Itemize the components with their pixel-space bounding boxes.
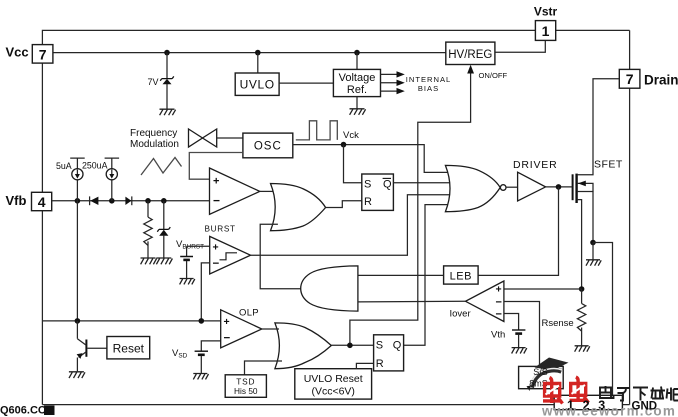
- svg-text:7: 7: [626, 71, 634, 87]
- node latch2 S junction: [347, 343, 353, 349]
- pin box Vcc 7: [32, 45, 53, 64]
- watermark graduation cap: [527, 358, 569, 392]
- svg-text:Q: Q: [393, 340, 402, 352]
- node Vfb-zener junction: [161, 198, 167, 204]
- ground below SFET source: [586, 260, 601, 266]
- node Vfb-resistor junction: [145, 198, 151, 204]
- wire burst minus input: [201, 263, 209, 321]
- svg-text:7V: 7V: [147, 77, 158, 87]
- wire OLP out to OR2: [262, 328, 279, 330]
- svg-text:Vstr: Vstr: [534, 5, 558, 19]
- svg-text:Vth: Vth: [491, 330, 505, 341]
- clock waveform Vck: [296, 121, 338, 140]
- node Vfb-5uA junction: [75, 198, 81, 204]
- svg-text:1: 1: [542, 23, 550, 39]
- zener diode 7V: [160, 76, 174, 84]
- node Vcc-UVLO junction: [255, 50, 261, 56]
- wire OLP minus input: [201, 341, 220, 351]
- wire zener branch: [166, 53, 168, 109]
- wire OR1 out to latch1 R: [326, 201, 362, 208]
- wire latch1 Qbar to NOR in2: [393, 182, 455, 184]
- zener diode on Vfb: [157, 201, 170, 258]
- svg-text:Vcc: Vcc: [6, 44, 29, 59]
- wire OLP plus rail: [42, 320, 220, 322]
- wire NOR to DRIVER: [506, 186, 518, 188]
- wire OSC output to Vck node: [293, 145, 452, 173]
- block S/S 8mS: [519, 366, 564, 388]
- or-gate OR2: [275, 323, 331, 369]
- svg-text:Vck: Vck: [343, 130, 359, 141]
- wire UVLO Reset to latch2 R: [356, 363, 373, 368]
- wire OR2 out to latch2 S: [331, 344, 373, 346]
- wire Iover plus input: [504, 288, 582, 290]
- internal bias arrow 3: [381, 90, 398, 92]
- svg-text:VBURST: VBURST: [176, 239, 204, 251]
- svg-text:+: +: [213, 176, 219, 188]
- wire base to Reset: [88, 347, 107, 349]
- wire VRef to ground: [356, 97, 358, 109]
- wire VBURST to burst +: [187, 246, 210, 256]
- or-gate OR1: [271, 184, 326, 231]
- IC bottom border wire: [42, 404, 629, 406]
- transistor SFET gate bar: [572, 174, 574, 200]
- svg-text:His 50: His 50: [234, 386, 258, 396]
- block Voltage Ref: [333, 69, 380, 96]
- svg-text:DRIVER: DRIVER: [513, 159, 557, 171]
- buffer DRIVER: [518, 172, 546, 201]
- comparator Iover (mirrored): [466, 281, 504, 322]
- pin box GND 123: [554, 395, 622, 409]
- svg-text:BURST: BURST: [205, 225, 236, 234]
- block HV/REG: [446, 42, 495, 64]
- wire source to GND pin: [593, 243, 613, 396]
- svg-text:4: 4: [38, 194, 46, 210]
- latch U2 SR: [374, 335, 404, 371]
- svg-text:Ref.: Ref.: [347, 84, 367, 96]
- pin box Vfb 4: [32, 192, 52, 210]
- svg-text:OLP: OLP: [239, 308, 259, 319]
- op-amp PWM comparator: [210, 168, 260, 214]
- wire Iover low-minus to Vth: [504, 314, 519, 330]
- wire UVLO to rail: [257, 53, 259, 73]
- NOR output bubble: [500, 185, 506, 191]
- svg-text:Voltage: Voltage: [339, 72, 376, 84]
- svg-text:S/S: S/S: [533, 367, 548, 377]
- node Vcc-VRef junction: [354, 50, 360, 56]
- svg-text:Modulation: Modulation: [130, 139, 179, 150]
- SFET body stub with arrow: [578, 183, 593, 191]
- IC left border wire: [41, 63, 43, 405]
- ground below zener: [156, 258, 172, 264]
- svg-text:Reset: Reset: [113, 341, 145, 355]
- svg-text:Vfb: Vfb: [6, 193, 27, 208]
- svg-text:−: −: [224, 333, 231, 345]
- ground below zener 7V: [160, 109, 176, 115]
- wire Iover out to AND: [358, 300, 466, 303]
- transistor Q1: [77, 321, 87, 371]
- resistor Rsense: [577, 289, 585, 346]
- wire VRef to rail: [356, 53, 358, 70]
- ground below Vth: [512, 348, 527, 354]
- SFET sense tap wire: [578, 200, 582, 289]
- svg-text:−: −: [496, 308, 502, 320]
- block Reset: [107, 337, 150, 359]
- svg-text:UVLO: UVLO: [240, 78, 275, 92]
- wire source to ground: [592, 243, 594, 260]
- internal bias arrow 1: [381, 73, 398, 75]
- wire burst output to NOR in3: [251, 195, 456, 255]
- svg-text:R: R: [364, 196, 372, 208]
- frequency modulation bowtie symbol: [189, 129, 217, 147]
- and-gate mirrored: [301, 266, 358, 311]
- block LEB: [444, 266, 479, 284]
- watermark bug characters: [543, 377, 589, 403]
- svg-text:Q606.CO: Q606.CO: [0, 405, 47, 417]
- nor-gate NOR1: [445, 165, 500, 211]
- ground below VRef: [350, 109, 366, 115]
- wire OSC ramp output to comparator: [189, 153, 243, 180]
- svg-text:TSD: TSD: [236, 376, 255, 386]
- node Iover plus junction: [579, 286, 585, 292]
- wire DRIVER to SFET gate: [546, 186, 572, 188]
- svg-text:INTERNAL: INTERNAL: [406, 75, 452, 84]
- wire ON/OFF control path: [350, 72, 471, 346]
- block UVLO: [235, 73, 279, 95]
- svg-text:VSD: VSD: [172, 348, 188, 360]
- SFET drain stub to Drain pin: [578, 79, 620, 175]
- svg-text:ON/OFF: ON/OFF: [479, 71, 508, 80]
- ground below VBURST: [180, 279, 195, 285]
- svg-text:(Vcc<6V): (Vcc<6V): [311, 386, 354, 398]
- wire AND out to OR1 in2: [260, 224, 301, 288]
- wire UVLO to Voltage Ref: [279, 82, 333, 84]
- ground below resistor: [141, 258, 157, 264]
- svg-text:+: +: [224, 316, 230, 328]
- node OLP-transistor junction: [75, 318, 81, 324]
- svg-text:SFET: SFET: [594, 159, 623, 171]
- latch U1 SR: [362, 174, 394, 210]
- node burst-minus junction: [199, 318, 205, 324]
- Vcc rail wire: [53, 52, 446, 54]
- battery Vth: [512, 330, 525, 347]
- resistor on Vfb: [144, 201, 152, 258]
- wire Vck to latch1 S: [344, 145, 362, 183]
- node SFET source junction: [590, 240, 596, 246]
- arrowhead into HV/REG: [467, 65, 474, 74]
- sawtooth waveform: [141, 158, 182, 176]
- svg-text:Q: Q: [383, 179, 392, 191]
- wire comparator out to OR1: [260, 190, 274, 192]
- ground below Rsense: [575, 346, 590, 352]
- svg-text:−: −: [496, 296, 502, 308]
- svg-text:GND: GND: [632, 401, 658, 413]
- svg-text:S: S: [376, 340, 383, 352]
- svg-text:+: +: [213, 242, 219, 254]
- diode D2: [125, 196, 131, 205]
- pin box Vstr 1: [535, 21, 555, 41]
- current source 250uA: [105, 158, 120, 201]
- wire latch2 Q to NOR in4: [404, 205, 452, 346]
- wire bowtie to OSC: [217, 137, 243, 139]
- svg-text:−: −: [213, 194, 220, 208]
- IC right border wire: [629, 30, 631, 404]
- node Vcc-zener junction: [164, 50, 170, 56]
- node Vck junction: [341, 142, 347, 148]
- pin box Drain 7: [619, 69, 640, 88]
- svg-text:Iover: Iover: [450, 309, 471, 320]
- node Vfb-250uA junction: [109, 198, 115, 204]
- svg-text:Drain: Drain: [644, 73, 678, 88]
- SFET source stub: [578, 192, 593, 243]
- transistor SFET channel bar: [575, 174, 577, 203]
- node driver output junction: [556, 184, 562, 190]
- battery VSD: [195, 351, 208, 373]
- svg-text:7: 7: [39, 46, 47, 62]
- ground below VSD: [193, 374, 208, 380]
- battery VBURST: [180, 257, 193, 279]
- watermark site name characters: [600, 386, 678, 401]
- svg-text:Frequency: Frequency: [130, 128, 177, 139]
- svg-text:Rsense: Rsense: [542, 318, 574, 329]
- svg-text:OSC: OSC: [254, 141, 282, 153]
- internal bias arrow 2: [381, 82, 398, 84]
- block OSC: [243, 133, 293, 158]
- ground below transistor: [69, 372, 85, 378]
- comparator BURST: [210, 236, 251, 274]
- svg-text:UVLO Reset: UVLO Reset: [304, 373, 363, 385]
- wire LEB to AND: [358, 274, 444, 276]
- wire driver node down to LEB: [478, 187, 558, 276]
- svg-text:5uA: 5uA: [56, 161, 72, 171]
- svg-text:250uA: 250uA: [82, 160, 108, 170]
- svg-text:+: +: [496, 283, 502, 295]
- diode D1: [90, 196, 99, 205]
- current source 5uA: [70, 158, 85, 201]
- hysteresis symbol: [220, 253, 238, 260]
- IC top border wire: [42, 30, 629, 44]
- block UVLO Reset: [295, 369, 372, 399]
- svg-text:−: −: [213, 258, 220, 270]
- comparator OLP: [221, 310, 262, 348]
- wire TSD to OR2: [245, 361, 283, 375]
- wire HV/REG to Vstr: [495, 40, 545, 52]
- svg-text:HV/REG: HV/REG: [448, 49, 492, 61]
- svg-text:BIAS: BIAS: [418, 84, 439, 93]
- wire Vfb line: [52, 200, 210, 202]
- svg-text:S: S: [364, 179, 371, 191]
- wire Iover mid-minus to S/S: [504, 302, 540, 367]
- wire Vfb down to OLP node: [76, 201, 78, 321]
- block TSD: [225, 375, 266, 398]
- svg-text:LEB: LEB: [450, 271, 472, 283]
- svg-text:R: R: [376, 358, 384, 370]
